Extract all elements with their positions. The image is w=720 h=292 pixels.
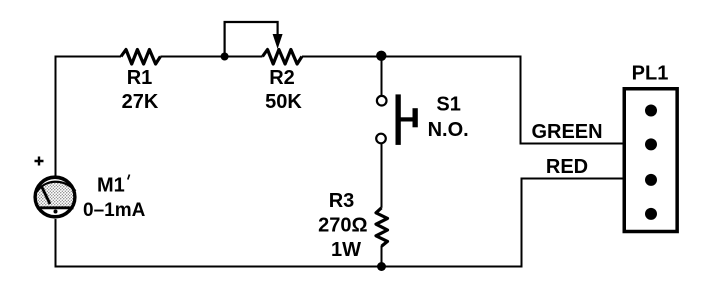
svg-text:S1: S1: [436, 94, 460, 116]
svg-text:R3: R3: [329, 190, 355, 212]
svg-text:RED: RED: [546, 156, 588, 178]
svg-text:M1: M1: [97, 175, 125, 197]
svg-text:27K: 27K: [122, 91, 159, 113]
svg-text:PL1: PL1: [632, 63, 669, 85]
svg-text:270Ω: 270Ω: [318, 214, 367, 236]
svg-text:R2: R2: [269, 67, 295, 89]
svg-text:N.O.: N.O.: [428, 119, 469, 141]
svg-text:GREEN: GREEN: [531, 121, 602, 143]
svg-text:1W: 1W: [331, 239, 361, 261]
svg-text:50K: 50K: [265, 91, 302, 113]
svg-text:R1: R1: [127, 67, 153, 89]
svg-text:0–1mA: 0–1mA: [83, 200, 146, 221]
